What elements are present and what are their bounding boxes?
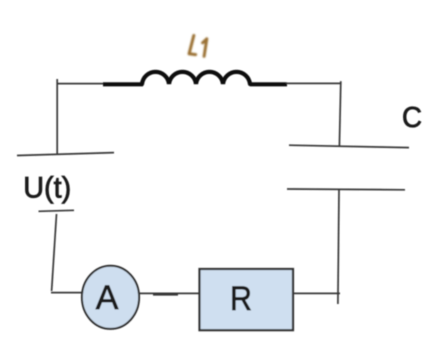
wire top horizontal right (286, 82, 341, 84)
capacitor C top plate (289, 145, 409, 147)
label L1 (189, 36, 207, 57)
wire top horizontal left (57, 83, 106, 85)
svg-text:R: R (230, 280, 252, 318)
wire R to right (293, 292, 340, 294)
ammeter A1 body (82, 266, 139, 329)
resistor R body (200, 269, 294, 330)
inductor L1 (103, 72, 287, 84)
wire bottom left (51, 292, 83, 294)
wire right vertical lower (338, 190, 339, 304)
capacitor C bottom plate (287, 188, 405, 191)
svg-text:C: C (402, 102, 422, 134)
svg-text:A: A (96, 279, 119, 317)
svg-text:U(t): U(t) (23, 172, 71, 205)
wire top left vertical (56, 79, 58, 154)
wire A to R (139, 292, 200, 294)
source long plate (17, 153, 114, 156)
source short plate (39, 210, 75, 211)
wire overlap dash (153, 294, 178, 296)
wire right vertical upper (339, 81, 340, 146)
wire left lower slanted (52, 214, 57, 291)
